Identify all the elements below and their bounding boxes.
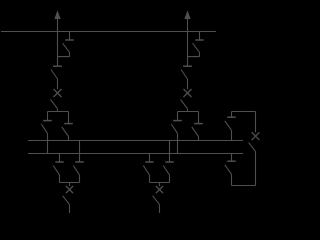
wire QS23 to busbar W1 — [198, 137, 200, 142]
breaker Q5 — [252, 132, 260, 140]
disconnector QS13 blade — [62, 127, 69, 137]
disconnector QS32 contact — [227, 160, 235, 162]
wire bay1 Q1 to split — [57, 109, 59, 112]
disconnector QS11 contact — [53, 65, 62, 67]
wire bay1 QS11 to Q1 — [57, 79, 59, 89]
disconnector QS25 blade — [163, 166, 169, 175]
wire outgoing2 stub W1 — [169, 141, 171, 162]
wire bay2 feeder — [187, 18, 189, 67]
wire coupler stub W2 — [231, 154, 233, 161]
breaker Q4 blade — [153, 196, 160, 205]
busbar W1 — [28, 140, 243, 142]
wire merge to Q2 — [69, 183, 71, 187]
wire QS22 to busbar W2 — [177, 133, 179, 153]
wire QS24 to merge — [149, 175, 151, 183]
wire bay2 Q3 to split — [187, 109, 189, 112]
wire outgoing2 tail — [159, 205, 161, 213]
wire bay2 QS21 to Q3 — [187, 79, 189, 89]
disconnector QS13 contact — [64, 123, 73, 125]
breaker Q1 — [54, 89, 62, 97]
disconnector QS25 contact — [165, 161, 173, 163]
disconnector QS23 contact — [194, 123, 203, 125]
node bay2 split — [178, 111, 199, 113]
wire QS10 to feeder — [58, 52, 70, 56]
disconnector QS21 blade — [181, 70, 188, 80]
feeder arrow bay1 — [54, 10, 60, 19]
wire QS13 to busbar W1 — [68, 137, 70, 142]
disconnector QS31 contact — [227, 116, 235, 118]
bypass bus W3 — [1, 31, 216, 33]
disconnector QS31 blade — [225, 121, 232, 131]
wire bay2 branch W2 — [177, 112, 179, 121]
wire QS12 to busbar W2 — [47, 133, 49, 153]
busbar W2 — [28, 153, 243, 155]
wire QS25 to merge — [169, 175, 171, 183]
wire QS31 to busbar W1 — [231, 130, 233, 140]
disconnector QS20 blade — [193, 43, 200, 52]
disconnector QS21 contact — [183, 65, 192, 67]
disconnector QS15 blade — [73, 166, 79, 175]
node bay1 split — [48, 111, 69, 113]
disconnector QS10 blade — [63, 43, 70, 52]
wire merge to Q4 — [159, 183, 161, 187]
wire outgoing1 stub W1 — [79, 141, 81, 162]
disconnector QS12 blade — [41, 124, 47, 133]
wire bay1 branch W2 — [47, 112, 49, 121]
wire coupler right lower — [255, 152, 257, 186]
disconnector QS15 contact — [75, 161, 83, 163]
wire bay1 branch W1 — [68, 112, 70, 124]
disconnector QS24 contact — [145, 161, 153, 163]
wire QS14 to merge — [59, 175, 61, 183]
node outgoing2 merge — [150, 182, 170, 184]
disconnector QS22 contact — [173, 120, 182, 122]
wire coupler right upper — [255, 112, 257, 133]
wire outgoing2 stub W2 — [149, 154, 151, 162]
breaker Q3 blade — [181, 100, 188, 109]
wire bay2 branch W1 — [198, 112, 200, 124]
disconnector QS23 blade — [192, 127, 199, 137]
breaker Q2 — [66, 186, 73, 193]
breaker Q5 blade — [249, 142, 256, 151]
feeder arrow bay2 — [184, 10, 190, 19]
breaker Q1 blade — [51, 100, 58, 109]
disconnector QS22 blade — [171, 124, 177, 133]
disconnector QS10 contact — [65, 39, 73, 41]
wire bay2 bypass stub — [199, 32, 201, 40]
disconnector QS14 contact — [55, 161, 63, 163]
wire outgoing1 tail — [69, 205, 71, 213]
wire outgoing1 stub W2 — [59, 154, 61, 162]
breaker Q2 blade — [63, 196, 70, 205]
disconnector QS24 blade — [143, 166, 149, 175]
disconnector QS11 blade — [51, 70, 58, 80]
wire coupler bottom — [232, 174, 256, 185]
node outgoing1 merge — [60, 182, 80, 184]
disconnector QS20 contact — [195, 39, 203, 41]
wire QS20 to feeder — [188, 52, 200, 56]
disconnector QS14 blade — [53, 166, 59, 175]
wire bay1 feeder — [57, 18, 59, 67]
breaker Q3 — [184, 89, 192, 97]
wire QS15 to merge — [79, 175, 81, 183]
breaker Q4 — [156, 186, 163, 193]
disconnector QS32 blade — [225, 165, 232, 175]
wire bay1 bypass stub — [69, 32, 71, 40]
disconnector QS12 contact — [43, 120, 52, 122]
wire coupler top — [232, 112, 256, 117]
